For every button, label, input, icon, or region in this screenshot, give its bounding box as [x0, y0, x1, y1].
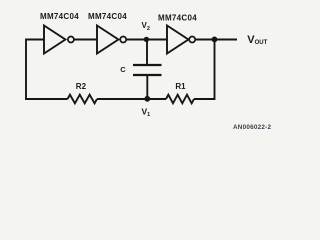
wire: U2 output through node V2 to U3 input [127, 39, 167, 41]
wire: U3 output through output node to VOUT terminal [196, 39, 237, 41]
wire: capacitor bottom plate down to node V1 [146, 75, 148, 99]
svg-text:MM74C04: MM74C04 [158, 14, 197, 23]
inverter U3 (MM74C04) [167, 26, 195, 54]
node V1 junction dot [144, 96, 150, 102]
svg-text:R2: R2 [76, 82, 87, 91]
wire: feedback loop left (inverter U1 input, left vertical, bottom-left run to R2) [26, 40, 68, 100]
node V2 junction dot [144, 37, 149, 42]
svg-text:AN006022-2: AN006022-2 [233, 124, 271, 131]
svg-text:R1: R1 [175, 82, 186, 91]
wire: R2 to node V1 to R1 [97, 98, 166, 100]
svg-text:MM74C04: MM74C04 [40, 12, 79, 21]
resistor R2 [68, 95, 97, 104]
svg-text:C: C [120, 65, 126, 74]
svg-text:MM74C04: MM74C04 [88, 12, 127, 21]
inverter U2 (MM74C04) [97, 26, 126, 54]
wire: U1 output to U2 input [74, 39, 97, 41]
resistor R1 [166, 95, 194, 104]
inverter U1 (MM74C04) [44, 26, 74, 54]
node VOUT junction dot [212, 37, 218, 43]
wire: R1 to right corner and right vertical up to output node [194, 40, 215, 100]
capacitor C plates [133, 65, 162, 75]
wire: node V2 down to capacitor top plate [146, 40, 148, 66]
